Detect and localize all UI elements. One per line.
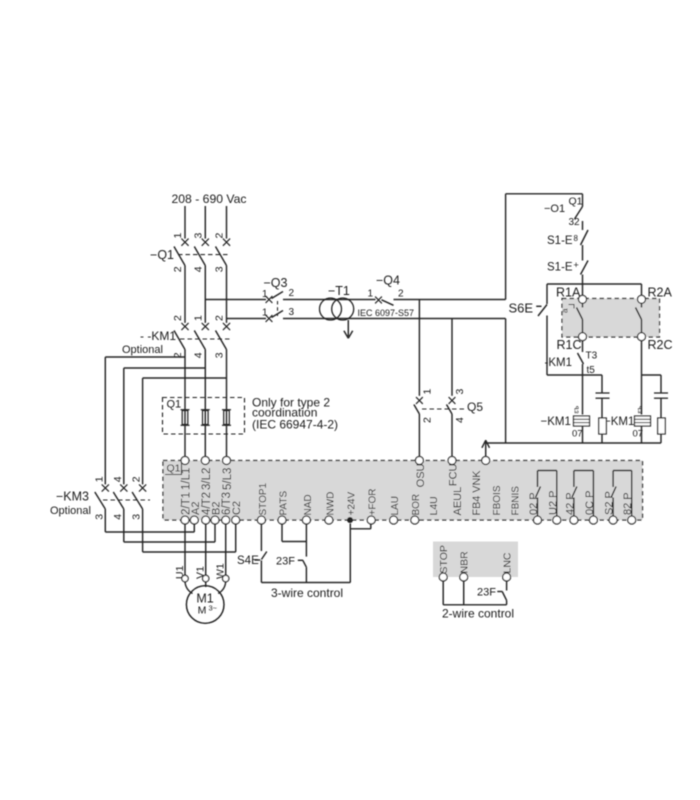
svg-text:OSU: OSU	[415, 463, 427, 487]
svg-text:23F: 23F	[477, 587, 496, 599]
svg-text:AEUL: AEUL	[452, 487, 464, 516]
svg-text:2-wire control: 2-wire control	[442, 607, 514, 621]
svg-text:3~: 3~	[209, 604, 218, 613]
svg-text:5/L3: 5/L3	[222, 468, 234, 490]
svg-text:PATS: PATS	[278, 491, 289, 516]
svg-text:S4E: S4E	[237, 555, 259, 567]
svg-text:Q1: Q1	[167, 463, 181, 475]
svg-text:a: a	[561, 308, 570, 313]
svg-text:ɛъ: ɛъ	[574, 405, 581, 413]
svg-text:ɛъ: ɛъ	[637, 405, 644, 413]
svg-text:82 P: 82 P	[622, 492, 634, 515]
svg-text:W1: W1	[215, 563, 227, 579]
svg-text:R2A: R2A	[648, 286, 673, 300]
svg-text:S2 P: S2 P	[604, 491, 616, 515]
svg-text:NWD: NWD	[325, 492, 336, 516]
svg-text:−KM3: −KM3	[56, 490, 89, 504]
svg-text:−T1: −T1	[328, 284, 350, 298]
svg-text:2: 2	[172, 266, 184, 272]
svg-text:LNC: LNC	[502, 552, 514, 573]
svg-text:Q5: Q5	[467, 400, 483, 414]
svg-text:Q1: Q1	[167, 399, 182, 411]
svg-text:S1-E: S1-E	[547, 235, 573, 247]
svg-text:NBR: NBR	[459, 551, 471, 574]
svg-text:1: 1	[93, 476, 105, 482]
svg-text:R1A: R1A	[556, 286, 581, 300]
svg-text:07: 07	[572, 429, 583, 440]
svg-text:STOP: STOP	[438, 545, 450, 573]
svg-text:+: +	[574, 260, 579, 270]
svg-text:+FOR: +FOR	[368, 489, 379, 516]
svg-text:V1: V1	[195, 566, 207, 579]
svg-text:8: 8	[574, 234, 579, 243]
svg-text:U1: U1	[174, 565, 186, 579]
svg-text:-KM1: -KM1	[545, 357, 572, 369]
svg-text:- -KM1: - -KM1	[140, 329, 176, 343]
svg-text:−KM1: −KM1	[541, 416, 571, 428]
svg-text:2: 2	[172, 315, 184, 321]
svg-text:32: 32	[569, 217, 581, 228]
svg-text:1: 1	[422, 389, 434, 395]
svg-text:4: 4	[112, 514, 124, 520]
svg-text:B2: B2	[211, 502, 223, 515]
svg-text:4: 4	[112, 476, 124, 482]
svg-text:3: 3	[214, 352, 226, 358]
svg-text:4: 4	[192, 266, 204, 272]
svg-text:4: 4	[454, 417, 466, 423]
svg-text:M: M	[198, 605, 207, 617]
svg-text:−Q1: −Q1	[150, 248, 174, 262]
svg-text:1/L1: 1/L1	[181, 468, 193, 490]
svg-text:2: 2	[214, 315, 226, 321]
svg-text:FCU: FCU	[447, 463, 459, 486]
svg-text:FB4 VNK: FB4 VNK	[471, 470, 483, 516]
svg-text:42 P: 42 P	[564, 492, 576, 515]
svg-text:3: 3	[192, 233, 204, 239]
svg-text:FBNIS: FBNIS	[510, 486, 521, 516]
svg-text:BOR: BOR	[411, 494, 422, 516]
svg-text:23F: 23F	[276, 556, 295, 568]
svg-text:FBOIS: FBOIS	[492, 485, 503, 515]
svg-text:(IEC 66947-4-2): (IEC 66947-4-2)	[252, 418, 338, 432]
svg-text:2: 2	[422, 417, 434, 423]
svg-text:4: 4	[192, 352, 204, 358]
svg-text:IEC 6097-S57: IEC 6097-S57	[358, 308, 415, 318]
svg-text:3-wire control: 3-wire control	[271, 586, 343, 600]
svg-text:S6E: S6E	[509, 301, 534, 316]
svg-text:208 - 690 Vac: 208 - 690 Vac	[172, 192, 247, 206]
svg-text:Optional: Optional	[50, 505, 91, 517]
svg-text:Optional: Optional	[122, 344, 163, 356]
svg-text:C2: C2	[231, 501, 243, 515]
svg-text:1: 1	[172, 233, 184, 239]
svg-text:1: 1	[262, 308, 268, 319]
svg-text:−O1: −O1	[544, 203, 565, 215]
svg-text:A2: A2	[190, 502, 202, 515]
svg-text:2: 2	[131, 476, 143, 482]
svg-text:3: 3	[454, 389, 466, 395]
svg-text:NAD: NAD	[303, 494, 314, 515]
svg-text:0C P: 0C P	[584, 491, 596, 515]
svg-text:+24V: +24V	[346, 492, 357, 516]
svg-text:3: 3	[214, 266, 226, 272]
svg-text:3: 3	[131, 514, 143, 520]
svg-text:3: 3	[289, 307, 295, 318]
svg-text:1: 1	[192, 315, 204, 321]
svg-text:2: 2	[398, 289, 404, 300]
svg-text:T3: T3	[586, 351, 598, 362]
svg-text:Q1: Q1	[569, 196, 583, 208]
svg-text:3: 3	[93, 514, 105, 520]
svg-text:−Q3: −Q3	[264, 276, 288, 290]
svg-text:2: 2	[214, 233, 226, 239]
svg-text:R1C: R1C	[557, 338, 582, 352]
svg-text:R2C: R2C	[648, 338, 673, 352]
svg-text:1: 1	[368, 289, 374, 300]
svg-text:LAU: LAU	[390, 496, 401, 515]
svg-text:−Q4: −Q4	[376, 274, 400, 288]
svg-text:1: 1	[262, 289, 268, 300]
svg-text:STOP1: STOP1	[258, 482, 269, 515]
svg-text:S1-E: S1-E	[547, 262, 573, 274]
svg-text:2: 2	[289, 288, 295, 299]
svg-text:L4U: L4U	[428, 496, 440, 515]
svg-text:02 P: 02 P	[528, 492, 540, 515]
svg-text:−KM1: −KM1	[604, 416, 634, 428]
svg-text:U2 P: U2 P	[547, 491, 559, 515]
svg-text:3/L2: 3/L2	[201, 468, 213, 490]
